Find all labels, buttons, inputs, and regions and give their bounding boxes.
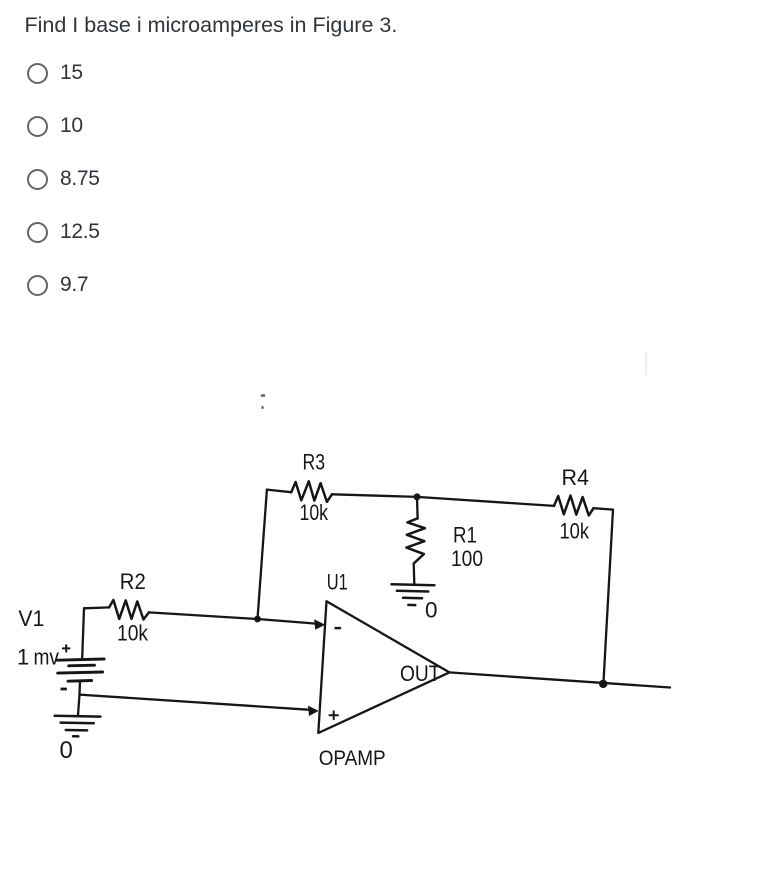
wire: V1 top to R2: [84, 606, 109, 609]
node C junction dot: [599, 680, 607, 688]
svg-text:R3: R3: [303, 449, 326, 474]
svg-text:100: 100: [451, 546, 483, 571]
ground below V1: [55, 716, 101, 737]
node B junction dot: [414, 493, 421, 500]
svg-text:R2: R2: [120, 569, 146, 594]
wire: node B to R4: [417, 497, 554, 506]
op-amp U1 triangle: [318, 601, 449, 733]
svg-text:OPAMP: OPAMP: [319, 747, 386, 770]
wire: battery bottom vertical: [78, 681, 81, 695]
wire: R4 right lead: [594, 508, 614, 509]
svg-text:0: 0: [60, 737, 73, 764]
wire: R1 top lead from node B: [416, 497, 419, 518]
arrowhead at inverting input: [314, 619, 325, 629]
wire: R4 right vertical down to node C: [603, 510, 613, 684]
svg-text:OUT: OUT: [400, 661, 441, 686]
op-amp minus pin mark: [335, 627, 342, 629]
arrowhead at non-inverting input: [308, 706, 319, 716]
wire: op-amp output to node C and beyond: [449, 672, 670, 687]
svg-text:1: 1: [17, 645, 29, 670]
battery plus mark: [63, 645, 70, 651]
faint colon artifact: [261, 394, 265, 409]
wire: R3 to node B: [332, 494, 418, 497]
wire: R1 bottom lead: [413, 564, 416, 584]
svg-text:10k: 10k: [300, 500, 329, 525]
battery V1 plates: [57, 659, 104, 681]
svg-text:R1: R1: [453, 522, 477, 547]
faint cursor line right side: [645, 352, 647, 375]
battery minus mark: [61, 688, 67, 691]
svg-text:10k: 10k: [560, 519, 590, 544]
wire: left feedback vertical (R3 left leg down to node A): [258, 490, 267, 619]
wire: R2 to node A: [149, 612, 258, 619]
svg-text:mv: mv: [34, 645, 60, 670]
resistor R4: [554, 496, 594, 516]
svg-text:0: 0: [425, 598, 438, 623]
wire: V1 top vertical: [82, 608, 84, 658]
svg-text:R4: R4: [562, 465, 590, 490]
resistor R1: [406, 518, 425, 563]
op-amp plus pin mark: [330, 711, 339, 719]
svg-text:U1: U1: [327, 569, 348, 594]
svg-text:V1: V1: [18, 606, 44, 631]
svg-text:10k: 10k: [117, 621, 149, 646]
wire: node A to inverting input: [258, 619, 317, 624]
resistor R2: [109, 600, 149, 620]
wire: V1 minus to ground: [78, 695, 80, 715]
wire: V1 minus to non-inverting input: [80, 695, 309, 710]
resistor R3: [291, 481, 332, 502]
wire: R3 left lead: [267, 490, 291, 493]
node A junction dot: [254, 616, 261, 623]
ground below R1: [392, 584, 435, 605]
